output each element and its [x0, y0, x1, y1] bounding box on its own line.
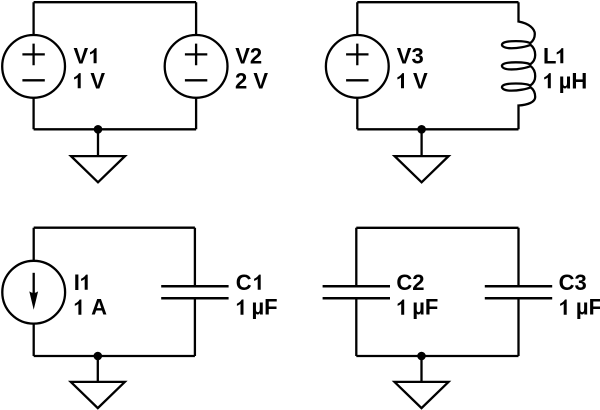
svg-text:µF: µF	[412, 295, 438, 320]
svg-text:I: I	[74, 270, 80, 295]
svg-text:V: V	[413, 68, 428, 93]
svg-text:L: L	[543, 43, 556, 68]
svg-text:C: C	[236, 270, 252, 295]
svg-text:µF: µF	[252, 295, 278, 320]
svg-text:A: A	[91, 295, 107, 320]
svg-text:µH: µH	[559, 68, 588, 93]
svg-text:µF: µF	[576, 295, 600, 320]
svg-text:C3: C3	[559, 270, 587, 295]
svg-text:V: V	[74, 43, 89, 68]
svg-text:C2: C2	[396, 270, 424, 295]
svg-text:2 V: 2 V	[235, 68, 268, 93]
svg-text:V2: V2	[235, 43, 262, 68]
svg-text:V: V	[90, 68, 105, 93]
svg-text:V3: V3	[397, 43, 424, 68]
